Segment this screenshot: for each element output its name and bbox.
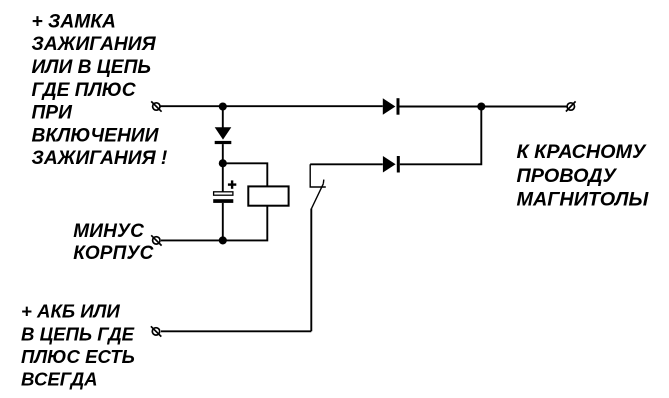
- svg-text:ПЛЮС ЕСТЬ: ПЛЮС ЕСТЬ: [21, 346, 135, 367]
- svg-text:КОРПУС: КОРПУС: [73, 243, 153, 264]
- capacitor C1 (polarized): [213, 192, 233, 203]
- svg-text:ПРОВОДУ: ПРОВОДУ: [517, 165, 618, 187]
- wire C1 to node C: [222, 203, 224, 241]
- wire switch blade down to battery rail: [310, 209, 312, 332]
- switch S1 fixed contact stub: [310, 164, 326, 187]
- wire VD2 to terminal X4: [400, 106, 568, 108]
- svg-text:ИЛИ В ЦЕПЬ: ИЛИ В ЦЕПЬ: [32, 57, 151, 78]
- wire battery rail (X3 to switch): [161, 330, 311, 332]
- label: + battery text block: [21, 301, 135, 390]
- svg-text:МАГНИТОЛЫ: МАГНИТОЛЫ: [517, 188, 650, 210]
- wire switch top to diode VD3: [310, 163, 383, 165]
- svg-text:ЗАЖИГАНИЯ !: ЗАЖИГАНИЯ !: [32, 148, 168, 169]
- wire node A down to diode VD1: [222, 107, 224, 129]
- diode VD1 (pointing down): [215, 127, 232, 144]
- svg-text:+ ЗАМКА: + ЗАМКА: [32, 11, 116, 32]
- svg-text:ВКЛЮЧЕНИИ: ВКЛЮЧЕНИИ: [32, 125, 160, 146]
- node B junction dot: [219, 159, 227, 167]
- wire X2 to node C: [161, 239, 223, 241]
- label: minus body text block: [73, 221, 153, 264]
- switch S1 movable blade: [312, 180, 324, 209]
- svg-text:ПРИ: ПРИ: [32, 103, 74, 124]
- svg-text:К КРАСНОМУ: К КРАСНОМУ: [517, 141, 647, 163]
- label: to red wire of head unit text block: [517, 141, 650, 210]
- wire VD3 to node D: [400, 107, 482, 165]
- label: + ignition lock text block: [32, 11, 168, 169]
- wire top left (X1 to diode VD2): [160, 105, 383, 107]
- svg-text:ВСЕГДА: ВСЕГДА: [21, 369, 98, 390]
- node A junction dot: [219, 102, 227, 110]
- wire node B to relay coil top: [223, 163, 267, 186]
- capacitor C1 plus sign: [228, 180, 236, 188]
- svg-text:ЗАЖИГАНИЯ: ЗАЖИГАНИЯ: [32, 34, 157, 55]
- wire relay coil bottom to node C: [223, 206, 267, 241]
- terminal X2 (ground): [151, 235, 161, 245]
- diode VD2 (pointing right): [383, 98, 400, 115]
- wire VD1 to capacitor C1: [222, 144, 224, 192]
- terminal X1 (ignition input): [151, 101, 161, 111]
- terminal X4 (output to head unit): [566, 101, 576, 111]
- svg-text:ГДЕ ПЛЮС: ГДЕ ПЛЮС: [32, 80, 137, 101]
- node D junction dot: [477, 102, 485, 110]
- diode VD3 (pointing right): [383, 156, 400, 173]
- node C junction dot: [219, 236, 227, 244]
- svg-text:МИНУС: МИНУС: [73, 221, 144, 242]
- svg-text:В ЦЕПЬ ГДЕ: В ЦЕПЬ ГДЕ: [21, 323, 135, 344]
- relay coil K1: [248, 186, 288, 205]
- svg-text:+ АКБ ИЛИ: + АКБ ИЛИ: [21, 301, 120, 322]
- terminal X3 (battery input): [151, 326, 161, 336]
